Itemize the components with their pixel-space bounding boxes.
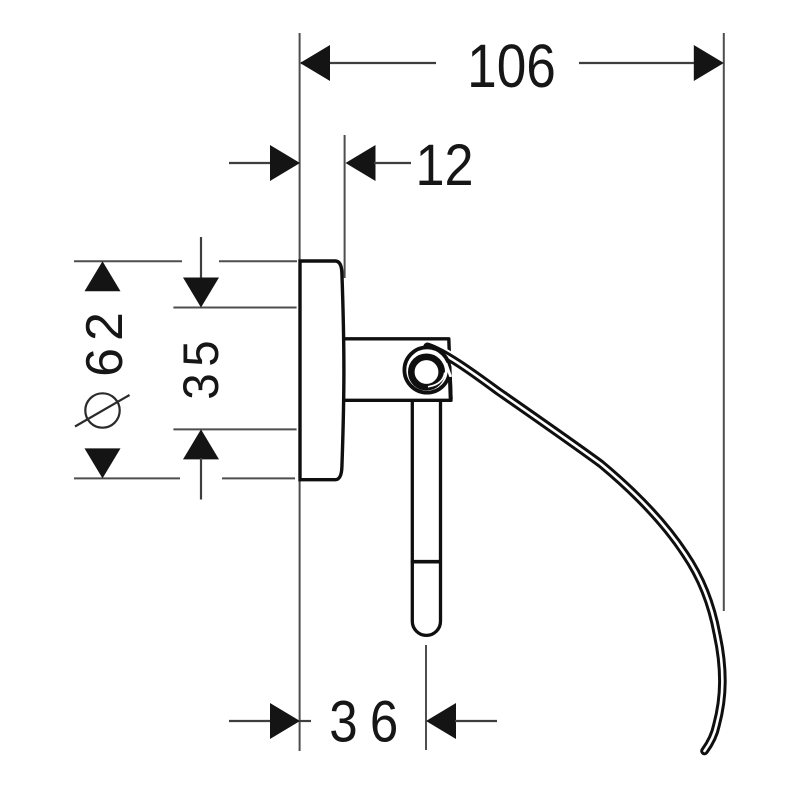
36 left arrowhead — [270, 703, 300, 739]
svg-text:35: 35 — [174, 334, 229, 400]
12 left arrowhead — [270, 145, 300, 181]
dia62 down arrowhead — [85, 448, 121, 478]
spring wire (double line) — [428, 347, 723, 751]
coil spiral gap (outer ring break) — [446, 364, 450, 376]
36 right arrowhead — [426, 703, 456, 739]
12 dimension tail right — [374, 162, 411, 164]
36 dimension line overhang past wall — [300, 720, 311, 722]
35 top arrowhead (down) — [183, 278, 219, 308]
106 right extension line — [723, 33, 725, 611]
36 dimension tail left — [229, 720, 272, 722]
dia62 up arrowhead — [85, 261, 121, 291]
12 right arrowhead — [346, 145, 376, 181]
106 dimension line right segment — [579, 62, 722, 64]
rod joint crossbar — [411, 560, 442, 564]
pivot coil inner annulus — [411, 357, 441, 387]
svg-text:12: 12 — [415, 132, 473, 197]
diameter symbol slash — [75, 395, 130, 427]
roll pin rod — [412, 400, 440, 635]
35 bottom extension line — [173, 428, 296, 430]
arm right edge segment below wire — [448, 377, 453, 399]
dia62 bottom extension line — [74, 477, 180, 479]
12 dimension tail left — [229, 162, 272, 164]
svg-text:36: 36 — [329, 689, 410, 754]
holder arm bracket — [345, 339, 451, 401]
35 bottom arrow tail — [200, 458, 202, 500]
diameter symbol circle — [85, 393, 119, 427]
35 top extension line — [173, 307, 296, 309]
wall extension line (left vertical) — [299, 33, 301, 751]
106 left arrowhead — [300, 45, 330, 81]
36 rod-center extension line — [425, 645, 427, 750]
svg-text:62: 62 — [76, 305, 134, 377]
35 bottom arrowhead (up) — [183, 429, 219, 459]
coil spiral gap (inner annulus) — [428, 373, 445, 387]
pivot coil outer ring — [404, 347, 449, 392]
12 right extension line — [344, 135, 346, 278]
106 dimension line left segment — [301, 62, 436, 64]
106 right arrowhead — [694, 45, 724, 81]
wall plate outline (side view) — [300, 261, 344, 480]
35 top arrow tail — [200, 237, 202, 280]
dia62 top extension line — [74, 260, 182, 262]
36 dimension tail right — [455, 720, 497, 722]
svg-text:106: 106 — [467, 33, 556, 101]
